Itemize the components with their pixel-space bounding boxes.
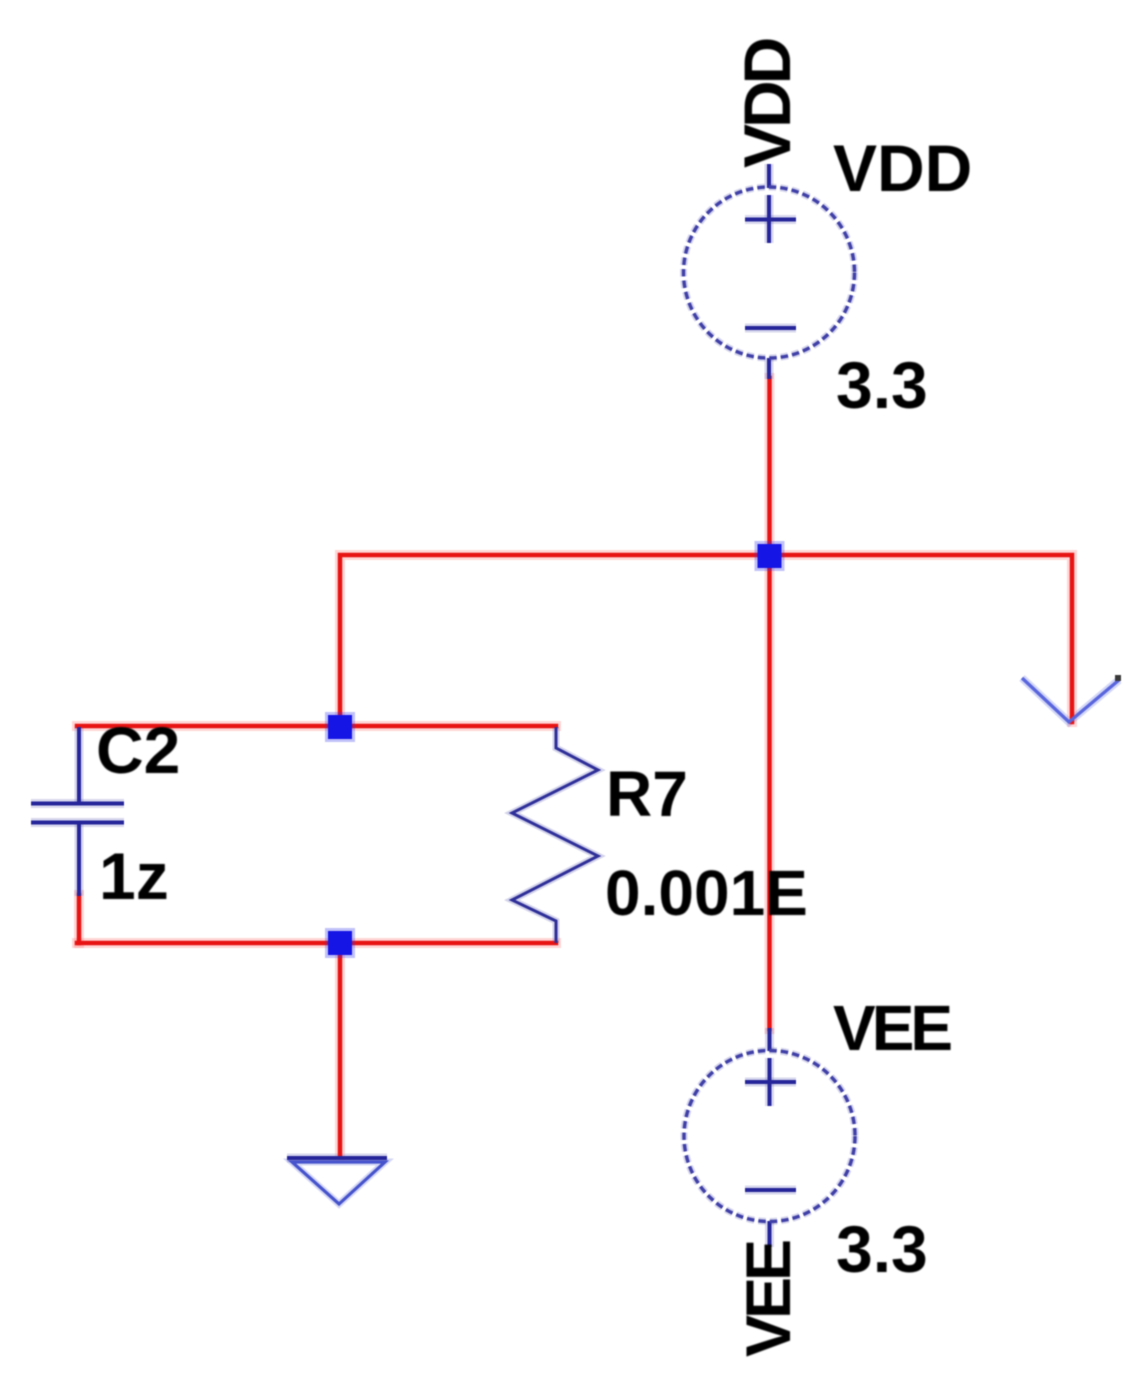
svg-text:VDD: VDD — [833, 131, 972, 205]
svg-text:VDD: VDD — [730, 39, 804, 168]
svg-text:C2: C2 — [96, 713, 180, 787]
svg-text:VEE: VEE — [833, 992, 951, 1064]
svg-text:1z: 1z — [99, 839, 169, 913]
svg-text:VEE: VEE — [734, 1241, 804, 1357]
svg-text:0.001E: 0.001E — [605, 857, 808, 929]
svg-text:3.3: 3.3 — [836, 348, 928, 422]
svg-text:3.3: 3.3 — [836, 1212, 928, 1286]
svg-text:R7: R7 — [606, 758, 688, 830]
